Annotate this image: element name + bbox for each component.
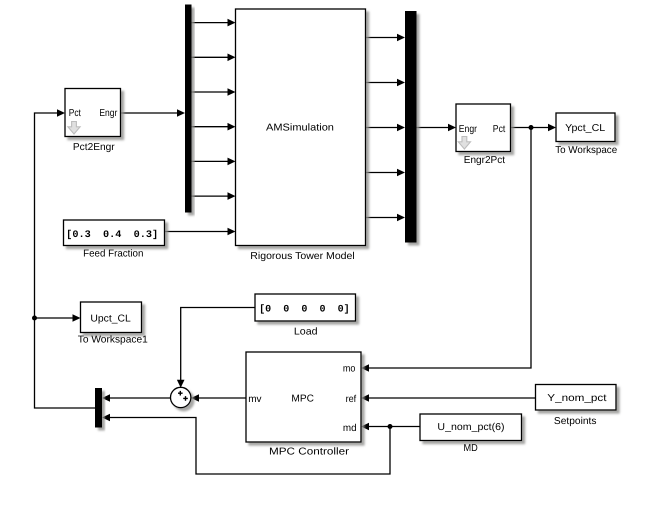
svg-text:Setpoints: Setpoints (554, 416, 597, 427)
To Workspace1 Upct_CL (78, 302, 148, 346)
svg-text:mo: mo (343, 363, 356, 374)
constant U_nom_pct(6) (MD) (420, 414, 522, 454)
wire: Y_nom_pct to MPC ref (364, 397, 536, 399)
wire: Feed Fraction to plant (165, 231, 234, 233)
junction: mo feedback tap (529, 125, 534, 130)
wire: md feedback to mux M2 (105, 418, 391, 475)
sum S1 (171, 387, 191, 407)
svg-text:AMSimulation: AMSimulation (266, 122, 334, 133)
svg-text:To Workspace: To Workspace (555, 145, 617, 156)
svg-text:[0.3 0.4 0.3]: [0.3 0.4 0.3] (66, 229, 158, 241)
plant block AMSimulation (236, 9, 366, 262)
svg-text:Feed Fraction: Feed Fraction (83, 248, 143, 259)
svg-text:Pct: Pct (69, 108, 81, 119)
svg-text:Ypct_CL: Ypct_CL (565, 123, 605, 134)
wire: Sum to mux M2 (105, 397, 171, 399)
wire: Load to Sum (181, 308, 255, 386)
svg-text:Load: Load (294, 326, 318, 337)
junction: md tap to mux M2 (388, 424, 393, 429)
wire: plant out 5 (366, 217, 403, 219)
wire: mux M1 out 4 (192, 126, 234, 128)
wire: plant out 1 (366, 37, 403, 39)
wire: mux M1 out 2 (192, 56, 234, 58)
wire: Pct2Engr to mux M1 (121, 112, 184, 114)
svg-text:Pct: Pct (493, 124, 506, 135)
svg-text:Rigorous Tower Model: Rigorous Tower Model (250, 251, 354, 262)
svg-text:To Workspace1: To Workspace1 (78, 335, 148, 346)
To Workspace Ypct_CL (555, 113, 617, 156)
svg-text:Engr: Engr (99, 108, 117, 119)
constant Feed Fraction (64, 220, 165, 259)
wire: to Upct_CL (35, 317, 79, 319)
junction: Upct_CL tap (32, 316, 37, 321)
wire: Engr2Pct to Ypct_CL (511, 127, 554, 129)
wire: mux M1 out 1 (192, 22, 234, 24)
svg-text:mv: mv (248, 394, 261, 405)
wire: U_nom_pct to MPC md (364, 426, 421, 428)
svg-text:Y_nom_pct: Y_nom_pct (547, 393, 606, 404)
wire: demux D1 to Engr2Pct (417, 127, 454, 129)
demux D1 (405, 11, 417, 243)
svg-text:[0 0 0 0 0]: [0 0 0 0 0] (259, 304, 350, 316)
svg-text:U_nom_pct(6): U_nom_pct(6) (437, 422, 504, 433)
constant Load (255, 294, 356, 337)
subsystem Engr2Pct (456, 104, 511, 166)
wire: mux M1 out 6 (192, 195, 234, 197)
wire: feedback to MPC mo (364, 128, 532, 369)
wire: mux M1 out 3 (192, 91, 234, 93)
svg-text:Upct_CL: Upct_CL (90, 314, 131, 325)
wire: MPC mv to Sum (194, 397, 247, 399)
wire: feedback bus to Pct2Engr (left vertical) (35, 113, 96, 408)
constant Y_nom_pct (Setpoints) (536, 385, 617, 427)
subsystem Pct2Engr (65, 89, 121, 154)
svg-text:MD: MD (463, 443, 477, 454)
MPC Controller U1 (246, 352, 361, 457)
mux M2 (95, 388, 102, 428)
svg-text:Engr2Pct: Engr2Pct (464, 155, 506, 166)
svg-text:Pct2Engr: Pct2Engr (73, 142, 115, 153)
svg-text:MPC Controller: MPC Controller (269, 446, 350, 457)
svg-text:MPC: MPC (291, 394, 314, 405)
wire: plant out 3 (366, 127, 403, 129)
svg-text:ref: ref (346, 394, 357, 405)
svg-text:Engr: Engr (459, 124, 478, 135)
svg-text:md: md (343, 423, 357, 434)
wire: mux M1 out 5 (192, 160, 234, 162)
mux M1 (185, 5, 192, 213)
wire: plant out 4 (366, 172, 403, 174)
wire: plant out 2 (366, 82, 403, 84)
